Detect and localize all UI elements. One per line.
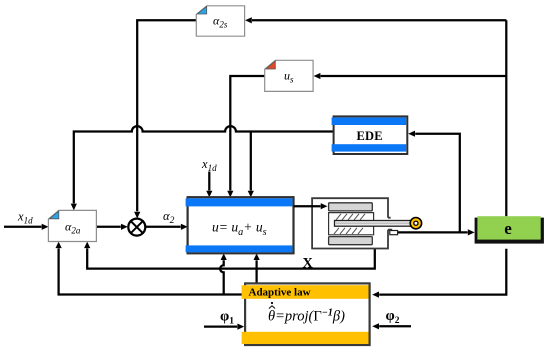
wire: branch from EDE line down into u block top bbox=[248, 132, 254, 198]
block alpha2a bbox=[48, 210, 96, 241]
svg-text:Adaptive law: Adaptive law bbox=[249, 286, 311, 298]
block adaptive law bbox=[242, 283, 370, 345]
wire: EDE input from right vertical bbox=[408, 131, 460, 233]
wire: x1d arrow into u block top bbox=[206, 172, 212, 198]
multiplier circle bbox=[128, 219, 145, 236]
wire: actuator output to e block bbox=[397, 229, 474, 235]
wire: us output down into u block top bbox=[227, 76, 265, 197]
adaptive law equation bbox=[268, 302, 345, 325]
wire: actuator bottom X feedback to alpha2a bottom bbox=[84, 242, 375, 269]
wire: multiplier output to u block bbox=[146, 224, 188, 230]
svg-text:X: X bbox=[303, 255, 314, 271]
block u = ua + us bbox=[186, 197, 294, 253]
block us bbox=[265, 60, 313, 91]
block e (green) bbox=[475, 216, 544, 243]
svg-text:θ=proj(Γ−1β): θ=proj(Γ−1β) bbox=[268, 308, 345, 325]
block alpha2s bbox=[196, 6, 244, 36]
wire: feedback into us block bbox=[314, 73, 507, 79]
wire: adaptive law left output to alpha2a bottom bbox=[55, 242, 245, 295]
actuator bottom chamber plate bbox=[329, 237, 373, 245]
wire: right vertical line from top corner down to e block bbox=[505, 20, 507, 216]
wire: EDE output left with hops to alpha2a top bbox=[71, 126, 334, 210]
wire: alpha2s output to multiplier bbox=[134, 20, 196, 218]
wire: x1d input into alpha2a bbox=[4, 224, 49, 230]
wire: u block output to actuator bbox=[294, 203, 328, 209]
svg-text:e: e bbox=[504, 219, 512, 238]
wire: alpha2a output to multiplier bbox=[96, 224, 127, 230]
actuator output tab bbox=[390, 231, 398, 235]
wire: phi1 arrow bbox=[204, 323, 244, 329]
block EDE bbox=[332, 116, 408, 154]
svg-text:EDE: EDE bbox=[357, 129, 383, 143]
wire: branch up from adaptive output line with hop into u block bottom bbox=[220, 253, 227, 294]
actuator rod end eye (yellow ring) bbox=[410, 218, 421, 229]
wire: adaptive law top output into u block bottom bbox=[253, 253, 259, 283]
actuator piston rod bbox=[335, 221, 411, 227]
wire: top feedback from right vertical into alpha2s bbox=[245, 17, 506, 23]
actuator top chamber plate bbox=[329, 203, 373, 211]
wire: e block down to adaptive law right input bbox=[372, 249, 506, 298]
actuator outer box bbox=[312, 198, 392, 248]
wire: phi2 arrow bbox=[372, 323, 411, 329]
actuator cylinder body with hatching bbox=[329, 213, 374, 235]
